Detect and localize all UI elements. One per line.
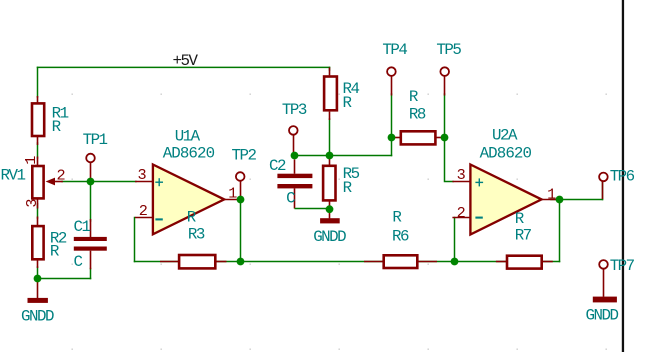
svg-text:3: 3: [138, 166, 147, 184]
svg-text:GNDD: GNDD: [21, 307, 54, 325]
svg-text:2: 2: [457, 204, 466, 222]
svg-text:TP1: TP1: [83, 131, 108, 149]
svg-text:R8: R8: [409, 106, 426, 124]
svg-text:TP4: TP4: [382, 41, 407, 59]
svg-text:RV1: RV1: [1, 167, 26, 185]
svg-text:TP2: TP2: [232, 146, 257, 164]
svg-text:U1A: U1A: [175, 128, 201, 146]
svg-text:2: 2: [139, 202, 148, 220]
svg-text:R: R: [515, 210, 525, 228]
svg-text:C: C: [286, 189, 295, 207]
svg-text:U2A: U2A: [492, 126, 518, 144]
svg-text:1: 1: [547, 185, 556, 203]
svg-text:AD8620: AD8620: [480, 145, 532, 163]
svg-text:AD8620: AD8620: [163, 145, 215, 163]
svg-text:R: R: [392, 209, 402, 227]
svg-text:1: 1: [22, 156, 40, 165]
svg-text:C1: C1: [74, 218, 91, 236]
svg-text:R: R: [409, 88, 419, 106]
svg-text:R3: R3: [188, 225, 205, 243]
svg-text:R6: R6: [392, 228, 409, 246]
svg-text:C: C: [74, 253, 83, 271]
svg-text:TP7: TP7: [610, 257, 635, 275]
svg-text:C2: C2: [269, 157, 286, 175]
svg-text:3: 3: [23, 198, 41, 207]
svg-text:GNDD: GNDD: [586, 306, 619, 324]
svg-text:3: 3: [457, 166, 466, 184]
svg-text:R7: R7: [515, 227, 532, 245]
svg-text:TP3: TP3: [282, 101, 307, 119]
svg-text:1: 1: [228, 185, 237, 203]
svg-text:TP5: TP5: [436, 41, 461, 59]
svg-text:2: 2: [57, 167, 66, 185]
svg-text:TP6: TP6: [610, 167, 635, 185]
svg-text:+5V: +5V: [173, 52, 199, 70]
svg-text:GNDD: GNDD: [313, 228, 346, 246]
